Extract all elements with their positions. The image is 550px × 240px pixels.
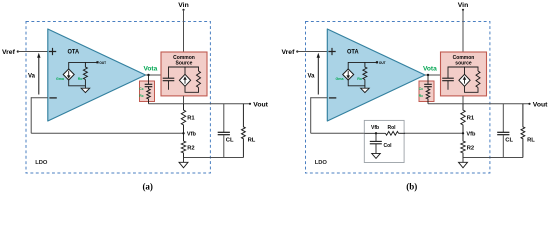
wire OTA internal top rail <box>69 62 98 69</box>
OTA - input symbol <box>329 97 336 99</box>
OTA - input symbol <box>49 97 56 99</box>
dependent current source Gma diamond <box>343 69 354 80</box>
node Vin terminal dot <box>182 9 184 11</box>
node Vin terminal dot <box>462 9 464 11</box>
circuit (b) LDO block diagram <box>282 2 549 173</box>
node Vota junction dot <box>147 74 149 76</box>
op-amp OTA triangle body <box>327 29 425 121</box>
svg-text:Vfb: Vfb <box>371 125 379 131</box>
wire feedback to OTA - input <box>31 97 48 99</box>
svg-text:Vref: Vref <box>2 49 16 56</box>
wire CS bottom rail <box>185 86 199 92</box>
svg-text:R1: R1 <box>467 115 475 121</box>
svg-text:Vout: Vout <box>533 101 548 108</box>
node Vota junction dot <box>427 74 429 76</box>
node Vref terminal dot <box>17 50 19 52</box>
resistor Rc <box>426 87 430 104</box>
svg-text:Vout: Vout <box>253 101 268 108</box>
svg-text:CL: CL <box>226 137 234 143</box>
dependent current source Gmp diamond <box>184 67 186 74</box>
wire CS bottom rail <box>465 86 479 92</box>
wire OTA output to common source <box>146 74 162 76</box>
svg-text:CL: CL <box>505 137 513 143</box>
svg-text:OUT: OUT <box>99 61 106 65</box>
resistor R1 <box>181 104 185 134</box>
svg-text:RL: RL <box>527 137 535 143</box>
wire OTA internal bottom rail <box>69 80 86 86</box>
dependent current source Gmp diamond <box>464 67 466 74</box>
label OUT with arrow <box>376 61 378 63</box>
svg-text:Vfb: Vfb <box>466 132 476 138</box>
wire OTA internal top rail <box>348 62 377 69</box>
capacitor CL <box>223 104 225 132</box>
svg-text:Cc: Cc <box>419 87 423 91</box>
svg-text:Rc: Rc <box>139 94 143 98</box>
OTA + input symbol <box>328 48 335 55</box>
resistor Ro <box>83 62 87 79</box>
capacitor Cgs in CS block <box>163 77 175 79</box>
wire CS top rail <box>448 67 478 78</box>
svg-text:(b): (b) <box>406 181 417 191</box>
op-amp OTA triangle body <box>48 29 146 121</box>
svg-text:Col: Col <box>384 143 393 149</box>
resistor R2 <box>181 133 185 157</box>
svg-text:Vota: Vota <box>144 66 158 73</box>
node Vfb junction dot <box>462 132 464 134</box>
wire Vota down to Cc <box>427 75 429 84</box>
resistor R1 <box>461 104 465 134</box>
svg-text:R2: R2 <box>467 146 474 152</box>
node Vfb junction dot <box>182 132 184 134</box>
svg-text:OTA: OTA <box>347 49 359 56</box>
ground OTA internal <box>364 86 366 88</box>
compensation network box <box>419 81 434 102</box>
svg-text:LDO: LDO <box>315 160 328 166</box>
resistor Rol <box>386 131 399 135</box>
node Vout terminal dot <box>528 103 530 105</box>
label OUT with arrow <box>96 61 98 63</box>
ground main <box>462 158 464 163</box>
svg-text:Rol: Rol <box>388 125 397 131</box>
LDO dashed boundary box <box>26 22 210 174</box>
wire Va voltage arrow <box>38 58 40 95</box>
svg-text:Source: Source <box>176 61 193 67</box>
resistor Ro <box>363 62 367 79</box>
wire Vref to OTA + input <box>297 51 327 53</box>
svg-text:Gma: Gma <box>56 77 65 81</box>
svg-text:Vfb: Vfb <box>187 132 197 138</box>
node Vfb junction dot in box <box>375 132 377 134</box>
svg-text:Ro: Ro <box>78 77 84 81</box>
svg-text:Vin: Vin <box>458 2 468 9</box>
svg-text:Gma: Gma <box>336 77 345 81</box>
wire Vin to common-source block <box>462 10 464 52</box>
wire CS top rail <box>169 67 199 78</box>
node Vref terminal dot <box>296 50 298 52</box>
capacitor Cc <box>424 83 432 85</box>
svg-text:Vota: Vota <box>423 66 437 73</box>
capacitor Cc <box>145 83 153 85</box>
svg-text:source: source <box>455 61 472 67</box>
dependent current source Gma diamond <box>63 69 74 80</box>
svg-text:Ro: Ro <box>357 77 363 81</box>
capacitor CL <box>502 104 504 132</box>
wire feedback left vertical <box>310 97 312 133</box>
svg-text:Vref: Vref <box>282 49 296 56</box>
wire feedback through box <box>364 132 385 134</box>
wire Vout rail <box>428 103 530 105</box>
svg-text:Vin: Vin <box>178 2 188 9</box>
svg-text:Cc: Cc <box>139 87 143 91</box>
svg-text:LDO: LDO <box>35 160 48 166</box>
ground Col <box>375 144 377 154</box>
wire Vota down to Cc <box>148 75 150 84</box>
capacitor Col <box>375 133 377 141</box>
resistor R2 <box>461 133 465 157</box>
svg-text:OUT: OUT <box>379 61 386 65</box>
svg-text:Va: Va <box>308 73 316 79</box>
resistor Rc <box>147 87 151 104</box>
circuit (a) LDO block diagram <box>2 2 269 173</box>
common source block box <box>161 52 207 96</box>
svg-text:OTA: OTA <box>68 49 80 56</box>
svg-text:R2: R2 <box>187 146 194 152</box>
wire Vref to OTA + input <box>18 51 48 53</box>
svg-text:(a): (a) <box>142 181 153 191</box>
wire feedback horizontal from Vfb <box>311 132 463 134</box>
wire CS output <box>462 96 464 104</box>
common source block box <box>441 52 487 96</box>
resistor RL <box>242 104 246 158</box>
wire bottom return line <box>463 157 523 159</box>
wire feedback horizontal from Vfb <box>31 132 183 134</box>
OTA + input symbol <box>49 48 56 55</box>
feedback parasitic box <box>364 120 404 162</box>
wire OTA internal bottom rail <box>348 80 365 86</box>
svg-text:RL: RL <box>248 137 256 143</box>
node Vout terminal dot <box>249 103 251 105</box>
wire feedback left vertical <box>30 97 32 133</box>
wire Va voltage arrow <box>317 58 319 95</box>
resistor Rop in CS block <box>476 71 480 88</box>
resistor Rop in CS block <box>197 71 201 88</box>
compensation network box <box>140 81 155 102</box>
ground main <box>183 158 185 163</box>
wire CS output <box>183 96 185 104</box>
svg-text:Rc: Rc <box>419 94 423 98</box>
wire bottom return line <box>184 157 244 159</box>
LDO dashed boundary box <box>306 22 490 174</box>
capacitor Cgs in CS block <box>442 77 454 79</box>
wire OTA output to common source <box>425 74 441 76</box>
wire Vin to common-source block <box>183 10 185 52</box>
svg-text:R1: R1 <box>187 115 195 121</box>
svg-text:Va: Va <box>28 73 36 79</box>
resistor RL <box>521 104 525 158</box>
wire Vout rail <box>149 103 251 105</box>
ground OTA internal <box>84 86 86 88</box>
wire feedback to OTA - input <box>311 97 328 99</box>
